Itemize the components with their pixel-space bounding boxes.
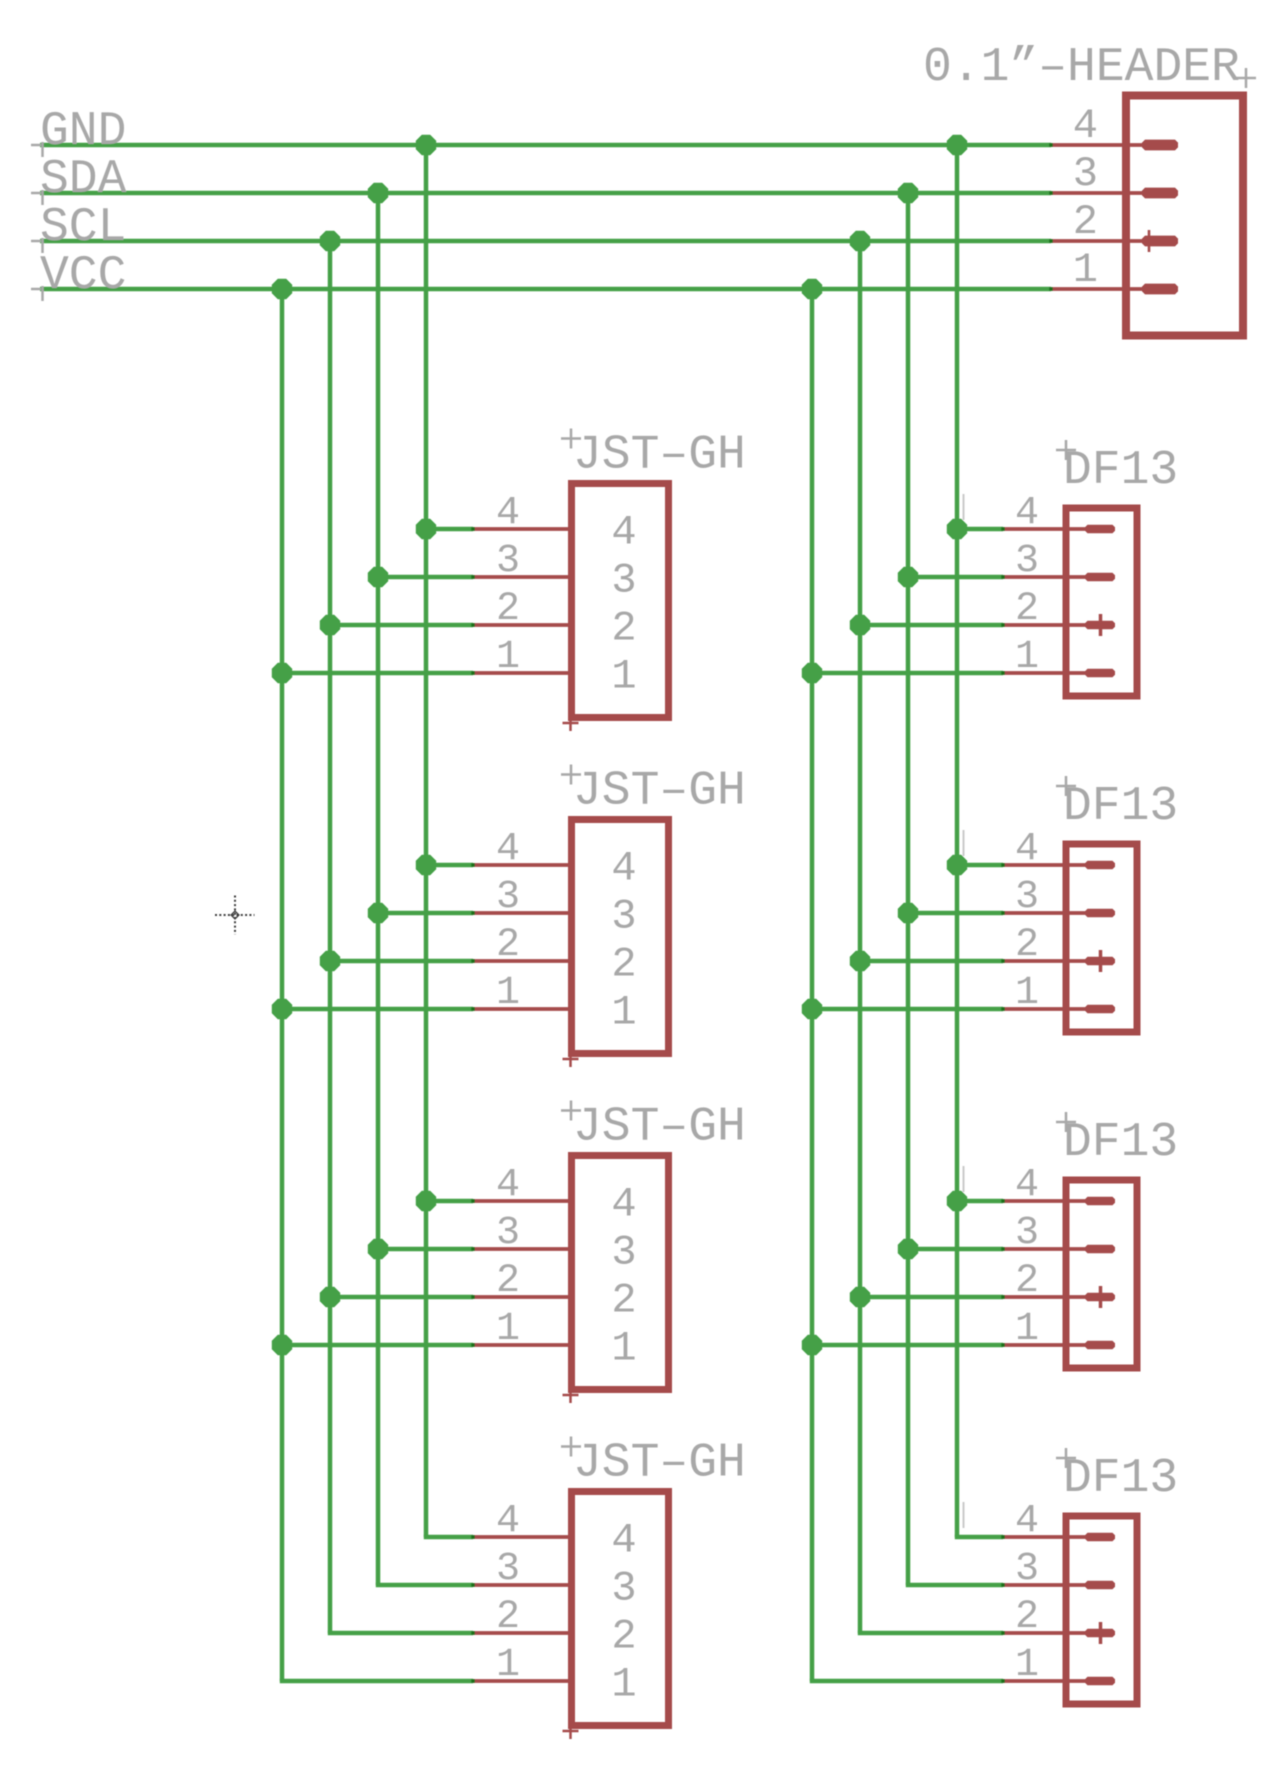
svg-text:3: 3 — [611, 557, 636, 605]
svg-text:GND: GND — [40, 105, 126, 159]
svg-text:2: 2 — [611, 605, 636, 653]
svg-text:2: 2 — [496, 923, 520, 968]
svg-text:JST–GH: JST–GH — [573, 765, 746, 819]
svg-text:4: 4 — [1015, 1163, 1039, 1208]
svg-text:4: 4 — [496, 1163, 520, 1208]
svg-text:3: 3 — [496, 539, 520, 584]
svg-text:1: 1 — [496, 971, 520, 1016]
svg-text:3: 3 — [611, 1229, 636, 1277]
svg-text:2: 2 — [496, 1259, 520, 1304]
svg-text:1: 1 — [1015, 971, 1039, 1016]
svg-text:3: 3 — [1015, 1211, 1039, 1256]
svg-text:1: 1 — [611, 989, 636, 1037]
svg-text:1: 1 — [611, 1325, 636, 1373]
svg-text:3: 3 — [1015, 1547, 1039, 1592]
svg-text:4: 4 — [611, 1517, 636, 1565]
svg-text:4: 4 — [1015, 827, 1039, 872]
svg-text:3: 3 — [1015, 539, 1039, 584]
svg-text:SCL: SCL — [40, 201, 126, 255]
svg-text:VCC: VCC — [40, 249, 126, 303]
svg-text:DF13: DF13 — [1063, 1116, 1178, 1170]
svg-text:0.1”–HEADER: 0.1”–HEADER — [923, 41, 1240, 95]
svg-text:4: 4 — [611, 1181, 636, 1229]
svg-text:2: 2 — [1015, 1595, 1039, 1640]
svg-text:4: 4 — [1015, 491, 1039, 536]
svg-text:1: 1 — [496, 1307, 520, 1352]
svg-text:3: 3 — [611, 893, 636, 941]
svg-text:2: 2 — [611, 941, 636, 989]
svg-text:JST–GH: JST–GH — [573, 429, 746, 483]
svg-text:DF13: DF13 — [1063, 1452, 1178, 1506]
svg-text:4: 4 — [611, 509, 636, 557]
svg-text:4: 4 — [611, 845, 636, 893]
svg-text:JST–GH: JST–GH — [573, 1101, 746, 1155]
svg-text:2: 2 — [496, 587, 520, 632]
svg-text:2: 2 — [1015, 587, 1039, 632]
svg-text:1: 1 — [496, 635, 520, 680]
svg-text:DF13: DF13 — [1063, 444, 1178, 498]
svg-text:4: 4 — [1073, 102, 1098, 150]
svg-text:2: 2 — [1015, 923, 1039, 968]
svg-text:1: 1 — [1015, 1307, 1039, 1352]
svg-text:1: 1 — [611, 1661, 636, 1709]
svg-text:2: 2 — [1073, 198, 1098, 246]
svg-text:DF13: DF13 — [1063, 780, 1178, 834]
svg-text:2: 2 — [496, 1595, 520, 1640]
svg-text:1: 1 — [611, 653, 636, 701]
svg-text:3: 3 — [1015, 875, 1039, 920]
svg-text:1: 1 — [1073, 246, 1098, 294]
svg-text:3: 3 — [611, 1565, 636, 1613]
svg-text:2: 2 — [611, 1613, 636, 1661]
svg-text:4: 4 — [1015, 1499, 1039, 1544]
svg-text:JST–GH: JST–GH — [573, 1437, 746, 1491]
svg-text:4: 4 — [496, 491, 520, 536]
svg-text:1: 1 — [1015, 1643, 1039, 1688]
svg-text:4: 4 — [496, 827, 520, 872]
svg-text:2: 2 — [1015, 1259, 1039, 1304]
svg-text:3: 3 — [496, 875, 520, 920]
svg-text:4: 4 — [496, 1499, 520, 1544]
svg-text:3: 3 — [496, 1547, 520, 1592]
svg-text:1: 1 — [1015, 635, 1039, 680]
svg-text:3: 3 — [496, 1211, 520, 1256]
svg-text:SDA: SDA — [40, 153, 127, 207]
svg-text:2: 2 — [611, 1277, 636, 1325]
svg-text:3: 3 — [1073, 150, 1098, 198]
svg-text:1: 1 — [496, 1643, 520, 1688]
